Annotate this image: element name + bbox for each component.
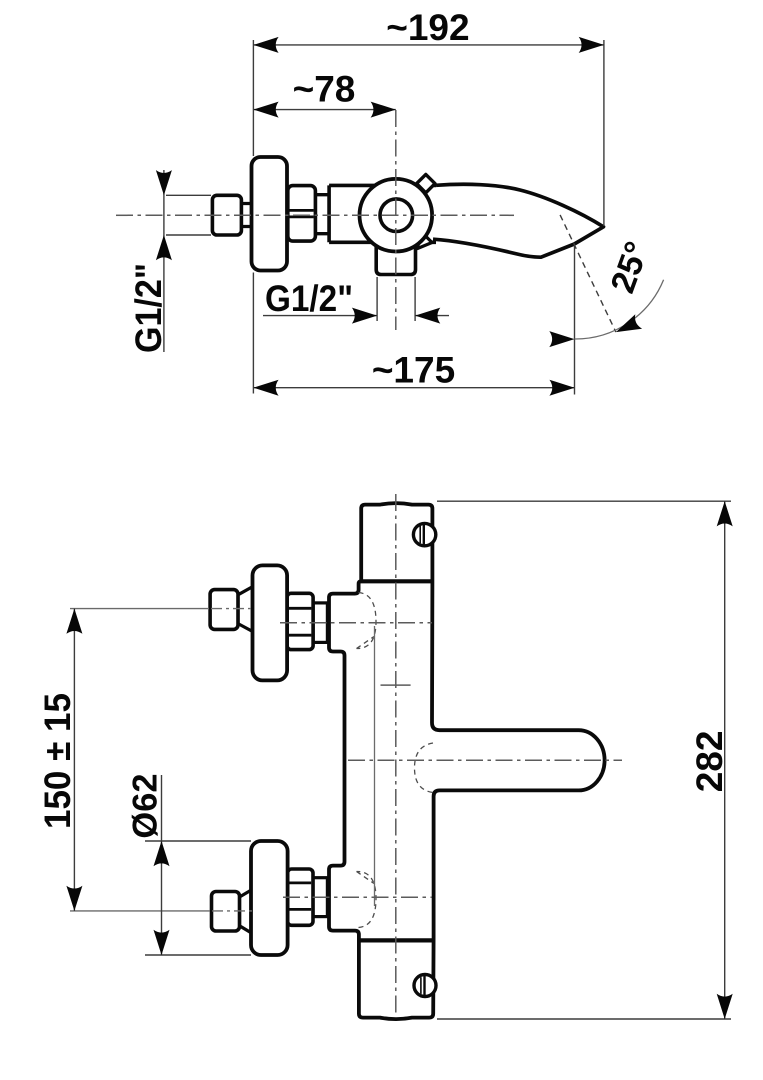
centerline cross tick [381,684,411,686]
top screw [413,523,435,545]
lower cap axis / extension [70,910,210,912]
outlet below handle [376,230,415,275]
svg-text:~175: ~175 [372,350,455,391]
hidden cartridge circle upper [357,593,377,649]
upper escutcheon [253,565,288,680]
dimension ~78 [253,69,395,118]
neck1 between pipe and escutcheon [239,204,253,227]
dimension G1/2" bottom [263,277,449,324]
lower wall cap [212,892,240,932]
bottom screw [414,975,436,997]
dimension G1/2" left vertical [128,170,211,353]
wall escutcheon [252,157,288,271]
tab on handle top-right [417,174,435,192]
vertical centerline bottom view [395,494,397,1014]
svg-text:150 ± 15: 150 ± 15 [37,693,78,829]
upper ring [313,603,327,643]
svg-text:~192: ~192 [386,7,469,48]
horizontal axis centerline [116,214,514,216]
upper nut [287,593,313,649]
svg-text:Ø62: Ø62 [127,773,165,838]
hidden spout joint circle [415,743,434,793]
top block separator [361,579,432,583]
svg-text:G1/2": G1/2" [265,278,353,319]
main body column silhouette [329,503,605,1019]
wire: body fill [327,185,436,242]
lower escutcheon [251,841,288,955]
svg-text:~78: ~78 [293,69,356,110]
hex nut [288,186,316,242]
spout body [433,184,604,257]
upper cap axis / extension [70,608,209,610]
wall pipe G1/2 [212,195,241,235]
notch on handle bottom-right [418,231,433,249]
dimension diameter 62 [127,773,252,955]
lower arm axis [283,896,432,898]
bottom block separator [359,938,434,942]
tangent edge line [374,626,376,906]
svg-text:G1/2": G1/2" [128,263,169,353]
upper wall cap [210,590,238,630]
svg-text:282: 282 [689,731,730,793]
handle inner circle [380,199,413,232]
upper arm axis [280,622,432,624]
hidden cartridge circle lower [357,871,377,927]
vertical centerline through handle [395,110,397,330]
body cylinder outline [329,185,436,242]
dimension 282 [437,501,733,1019]
upper neck trapezoid [238,587,253,632]
dimension ~175 [253,350,574,396]
lower ring [313,878,327,917]
handle outer circle [360,179,433,252]
25 degree annotation [549,215,663,395]
dimension 150 +/- 15 [37,609,82,911]
neck2 between nut and body [315,195,329,234]
lower nut [288,869,313,925]
lower neck trapezoid [240,889,254,934]
dimension ~192 [253,7,604,394]
spout axis [348,759,622,761]
